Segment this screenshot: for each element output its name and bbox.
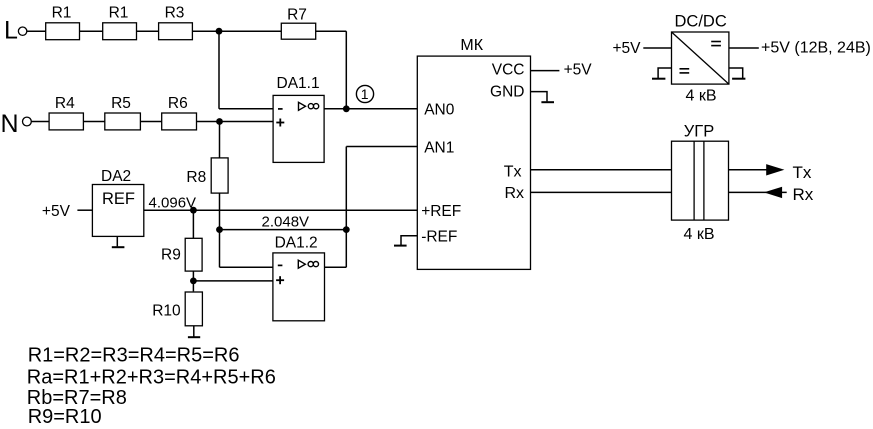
- resistor R8: [211, 158, 228, 193]
- svg-text:4.096V: 4.096V: [149, 194, 197, 211]
- wire down to DA1.2 minus: [219, 230, 221, 268]
- wire -REF to ground: [401, 236, 417, 245]
- svg-text:R6: R6: [168, 95, 188, 112]
- wire 2.048V line: [220, 229, 347, 231]
- svg-text:-REF: -REF: [421, 228, 457, 245]
- ground bar DA2: [112, 246, 125, 248]
- ground bar GND: [541, 101, 554, 103]
- wire 4.096V node down to R9: [192, 210, 194, 238]
- svg-text:N: N: [1, 110, 19, 138]
- svg-text:R9=R10: R9=R10: [28, 406, 102, 428]
- wire to DA1.2 minus input: [220, 266, 273, 268]
- svg-text:Ra=R1+R2+R3=R4+R5+R6: Ra=R1+R2+R3=R4+R5+R6: [27, 366, 276, 388]
- wire R7 to corner: [316, 30, 347, 32]
- DC/DC equals sign top right: [711, 41, 721, 43]
- svg-text:Tx: Tx: [793, 163, 812, 182]
- ground bar DC/DC right: [732, 78, 745, 80]
- wire Tx MK to UGR: [531, 169, 672, 171]
- svg-text:УГР: УГР: [684, 123, 714, 141]
- svg-text:R7: R7: [287, 6, 307, 23]
- wire AN1 to MK: [346, 146, 417, 148]
- node dot 2.048V right: [343, 226, 350, 233]
- resistor R4: [49, 113, 83, 130]
- wire GND pin: [531, 92, 548, 102]
- svg-text:4 кВ: 4 кВ: [686, 88, 717, 105]
- wire N to R4: [31, 121, 49, 123]
- resistor R1 (second): [103, 23, 137, 40]
- wire corner down to AN0 line: [345, 31, 347, 109]
- svg-text:REF: REF: [102, 190, 135, 208]
- wire R6 to DA1.1 plus input: [197, 121, 274, 123]
- op-amp DA1.2 box: [273, 253, 325, 321]
- svg-text:R1=R2=R3=R4=R5=R6: R1=R2=R3=R4=R5=R6: [28, 345, 240, 367]
- svg-text:DA2: DA2: [101, 168, 131, 185]
- wire DA2 ground stem: [116, 236, 118, 246]
- node dot L chain: [216, 28, 223, 35]
- svg-text:DA1.1: DA1.1: [277, 75, 320, 92]
- wire: [140, 121, 161, 123]
- DA1.1 minus sign: [278, 108, 283, 110]
- svg-text:МК: МК: [460, 37, 483, 54]
- wire DA1.2 output: [325, 266, 347, 268]
- DA1.2 plus sign: [276, 276, 284, 284]
- svg-text:R3: R3: [165, 5, 185, 22]
- resistor R1 (first): [46, 23, 80, 40]
- arrow Tx: [766, 164, 784, 175]
- wire DC/DC right ground: [729, 68, 743, 78]
- wire: [137, 30, 159, 32]
- resistor R9: [185, 238, 202, 271]
- wire +5V to DA2: [77, 209, 92, 211]
- op-amp DA1.2 symbol: [298, 260, 318, 268]
- svg-text:+5V (12В, 24В): +5V (12В, 24В): [761, 40, 871, 57]
- wire DC/DC left ground: [658, 68, 671, 78]
- svg-text:R10: R10: [152, 302, 181, 319]
- resistor R7: [281, 23, 315, 39]
- node dot DA1.1 output: [343, 105, 350, 112]
- resistor R10: [185, 292, 202, 326]
- wire R9 to R10: [192, 271, 194, 291]
- svg-text:+5V: +5V: [42, 203, 71, 220]
- DC/DC diagonal: [672, 32, 729, 84]
- microcontroller MK box: [417, 56, 530, 269]
- svg-text:R1: R1: [109, 5, 129, 22]
- op-amp DA1.1 symbol: [299, 102, 319, 110]
- wire +5V input to DC/DC: [643, 47, 671, 49]
- DC/DC equals sign bottom left: [680, 68, 690, 70]
- svg-text:4 кВ: 4 кВ: [684, 226, 715, 243]
- wire node N down to R8: [219, 122, 221, 158]
- svg-text:+5V: +5V: [613, 40, 642, 57]
- node dot 4.096V: [190, 207, 197, 214]
- wire VCC to +5V: [531, 70, 560, 72]
- isolation block UGR box: [672, 141, 729, 220]
- svg-text:Tx: Tx: [504, 163, 522, 180]
- voltage reference DA2 box: [92, 185, 143, 237]
- node circle 1: [356, 85, 373, 102]
- wire Rx MK to UGR: [531, 191, 672, 193]
- svg-text:+REF: +REF: [421, 203, 461, 220]
- arrow Rx: [764, 187, 782, 198]
- svg-text:AN0: AN0: [424, 101, 455, 118]
- svg-text:VCC: VCC: [492, 62, 525, 79]
- DA1.1 plus sign: [276, 119, 284, 127]
- svg-text:Rx: Rx: [504, 185, 524, 202]
- node dot N chain: [216, 118, 223, 125]
- wire vertical output/AN1: [345, 147, 347, 268]
- resistor R3: [159, 23, 193, 40]
- wire DA1.1 output to MK AN0: [324, 108, 417, 110]
- ground bar R10: [188, 336, 200, 338]
- svg-text:R1: R1: [52, 5, 72, 22]
- resistor R5: [105, 113, 141, 130]
- terminal N circle: [23, 117, 32, 126]
- op-amp DA1.1 box: [273, 95, 324, 162]
- wire node L down to DA1.1 minus: [218, 31, 220, 109]
- svg-text:R4: R4: [55, 95, 75, 112]
- svg-text:R5: R5: [111, 95, 131, 112]
- svg-text:GND: GND: [490, 84, 524, 101]
- svg-text:+5V: +5V: [564, 62, 593, 79]
- node dot divider: [190, 278, 197, 285]
- wire divider node to DA1.2 plus input: [193, 280, 273, 282]
- wire R3 to R7: [192, 30, 281, 32]
- svg-text:DC/DC: DC/DC: [675, 13, 727, 31]
- wire: [83, 121, 104, 123]
- svg-text:R9: R9: [161, 246, 181, 263]
- UGR internal barrier line 1: [693, 141, 695, 220]
- wire L to R1: [27, 30, 46, 32]
- wire DC/DC output: [729, 47, 759, 49]
- svg-text:R8: R8: [186, 169, 206, 186]
- DA1.2 minus sign: [278, 264, 283, 266]
- svg-text:Rx: Rx: [793, 185, 814, 204]
- wire REF output to MK +REF: [144, 209, 418, 211]
- svg-text:2.048V: 2.048V: [262, 214, 310, 231]
- ground bar DC/DC left: [652, 78, 665, 80]
- wire to DA1.1 minus input: [219, 108, 273, 110]
- wire R10 ground stem: [193, 326, 195, 337]
- node dot 2.048V left: [216, 226, 223, 233]
- ground bar -REF: [394, 245, 407, 247]
- svg-text:AN1: AN1: [424, 139, 454, 156]
- wire Rx out of UGR: [729, 191, 787, 193]
- UGR internal barrier line 2: [703, 141, 705, 220]
- svg-text:L: L: [4, 16, 18, 44]
- svg-text:DA1.2: DA1.2: [275, 234, 318, 251]
- wire Tx out of UGR: [729, 169, 768, 171]
- terminal L circle: [18, 27, 26, 35]
- wire: [80, 30, 103, 32]
- resistor R6: [162, 113, 197, 130]
- svg-text:1: 1: [361, 86, 369, 102]
- wire R8 down across REF line to 2.048 node: [219, 193, 221, 230]
- DC/DC converter box: [672, 32, 729, 84]
